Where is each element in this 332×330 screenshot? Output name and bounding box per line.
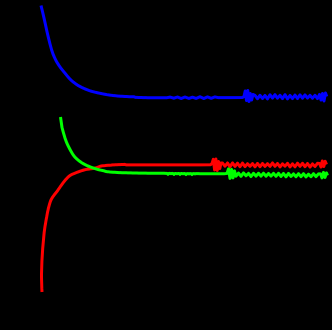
red curve [42,159,327,292]
blue curve [41,6,327,102]
green curve [61,117,328,178]
